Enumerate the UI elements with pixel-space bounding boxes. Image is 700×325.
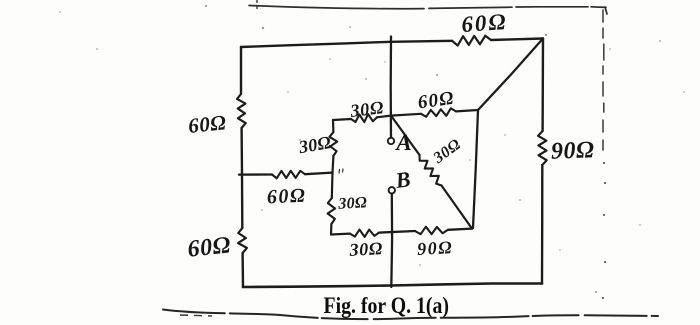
svg-text:30Ω: 30Ω (348, 97, 385, 121)
svg-text:60Ω: 60Ω (186, 232, 232, 262)
svg-text:60Ω: 60Ω (461, 9, 509, 37)
svg-text:30Ω: 30Ω (348, 238, 383, 260)
svg-text:60Ω: 60Ω (266, 184, 307, 208)
svg-text:90Ω: 90Ω (551, 137, 595, 164)
svg-text:A: A (394, 130, 411, 155)
svg-text:30Ω: 30Ω (337, 194, 368, 213)
svg-text:60Ω: 60Ω (187, 110, 227, 138)
svg-text:Fig. for Q. 1(a): Fig. for Q. 1(a) (324, 293, 450, 318)
svg-text:90Ω: 90Ω (417, 237, 454, 259)
